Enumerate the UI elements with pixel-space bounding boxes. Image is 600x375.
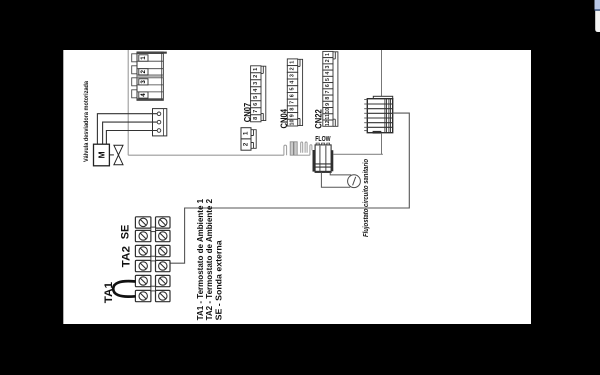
svg-text:5: 5 — [290, 88, 296, 91]
svg-text:CN04: CN04 — [279, 109, 289, 129]
svg-text:8: 8 — [253, 117, 259, 120]
wire transformer to board edge — [381, 134, 383, 155]
svg-text:1: 1 — [140, 56, 147, 60]
wire — [106, 131, 157, 145]
svg-text:8: 8 — [290, 108, 296, 111]
wire — [330, 172, 351, 175]
wire: board outline left edge — [127, 50, 129, 155]
svg-text:2: 2 — [243, 142, 250, 146]
svg-text:TA2: TA2 — [121, 246, 133, 267]
svg-text:9: 9 — [325, 103, 331, 106]
wire — [97, 114, 157, 145]
svg-text:4: 4 — [140, 93, 147, 97]
svg-text:9: 9 — [290, 114, 296, 117]
svg-text:12: 12 — [325, 120, 331, 126]
svg-text:6: 6 — [290, 94, 296, 97]
svg-text:CN22: CN22 — [314, 109, 324, 129]
motor M — [94, 144, 110, 166]
svg-text:7: 7 — [253, 110, 259, 113]
svg-text:10: 10 — [290, 120, 296, 126]
svg-text:7: 7 — [325, 90, 331, 93]
terminal block TA1/TA2/SE — [135, 217, 170, 302]
svg-text:4: 4 — [325, 72, 331, 75]
svg-text:6: 6 — [325, 84, 331, 87]
svg-text:1: 1 — [253, 68, 259, 71]
svg-text:1: 1 — [243, 131, 250, 135]
wire — [103, 122, 158, 144]
svg-text:Flujostato circuito sanitario: Flujostato circuito sanitario — [363, 158, 370, 237]
svg-text:SE: SE — [120, 225, 132, 240]
svg-text:3: 3 — [140, 80, 147, 84]
connector 2-pin — [241, 128, 256, 151]
connector 3-pin — [153, 109, 167, 136]
svg-text:2: 2 — [290, 67, 296, 70]
transformer / relay block — [364, 96, 393, 133]
svg-text:3: 3 — [253, 82, 259, 85]
connector CN04 — [279, 59, 303, 129]
svg-text:4: 4 — [290, 81, 296, 84]
board edge connector fingers — [284, 142, 312, 155]
svg-text:6: 6 — [253, 103, 259, 106]
svg-text:M: M — [97, 151, 107, 158]
svg-text:1: 1 — [290, 61, 296, 64]
wire from top to transformer — [381, 50, 383, 96]
wire: board outline bottom edge right segment — [333, 153, 383, 155]
wire: board outline bottom edge left segment — [128, 154, 284, 156]
svg-text:2: 2 — [325, 59, 331, 62]
wire — [109, 154, 114, 156]
flow sensor body — [313, 143, 334, 172]
svg-text:8: 8 — [325, 97, 331, 100]
svg-text:5: 5 — [253, 96, 259, 99]
svg-text:FLOW: FLOW — [315, 134, 330, 143]
svg-text:2: 2 — [253, 75, 259, 78]
svg-text:10: 10 — [325, 108, 331, 114]
svg-text:CN07: CN07 — [242, 103, 252, 123]
terminal block 1-2-3-4 — [132, 52, 164, 100]
svg-text:7: 7 — [290, 101, 296, 104]
sanitary flow sensor (circle) — [348, 175, 361, 188]
cursor artifact mark — [162, 52, 167, 54]
svg-text:TA1: TA1 — [103, 282, 115, 303]
connector CN22 — [314, 51, 338, 128]
svg-text:1: 1 — [325, 53, 331, 56]
svg-text:2: 2 — [140, 70, 147, 74]
svg-text:3: 3 — [325, 65, 331, 68]
svg-text:SE - Sonda externa: SE - Sonda externa — [214, 240, 224, 320]
svg-text:11: 11 — [325, 114, 331, 120]
svg-text:3: 3 — [290, 74, 296, 77]
wire — [321, 172, 350, 187]
scrollbar fragment top-right — [595, 0, 600, 32]
wire long: transformer to TA2 terminal — [170, 113, 409, 263]
valve (motorized diverter) — [114, 145, 123, 164]
svg-text:TA2 - Termostato de Ambiente 2: TA2 - Termostato de Ambiente 2 — [204, 199, 214, 321]
svg-text:5: 5 — [325, 78, 331, 81]
jumper TA1 — [113, 281, 135, 296]
svg-text:Válvula desviadora motorizada: Válvula desviadora motorizada — [83, 81, 90, 162]
connector CN07 — [242, 66, 265, 123]
